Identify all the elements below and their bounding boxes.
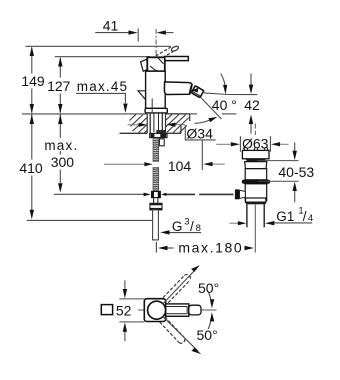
plan centerline left dash — [138, 309, 145, 311]
lever raised (dashed) — [152, 47, 174, 63]
svg-text:max.180: max.180 — [178, 239, 243, 255]
aerator (plan) — [189, 305, 201, 315]
dimension max.300 — [59, 115, 61, 184]
deck right hatching — [166, 114, 189, 132]
threaded tail G3/8 — [153, 210, 159, 240]
trap centerline bottom — [254, 205, 256, 253]
svg-text:104: 104 — [168, 158, 192, 174]
O34 label bracket — [185, 125, 215, 140]
body lower — [245, 184, 267, 201]
svg-text:50°: 50° — [198, 280, 219, 296]
lever raised tip ellipse — [171, 45, 179, 52]
wire: second reference line (lever level) — [55, 56, 150, 58]
hex nut — [150, 203, 162, 210]
svg-text:40 °: 40 ° — [212, 97, 237, 113]
locknut under deck — [150, 133, 167, 137]
50deg upper: diagonal + arc — [163, 268, 197, 304]
svg-text:Ø34: Ø34 — [186, 125, 213, 141]
head inner diagonal marks — [150, 66, 156, 71]
body square (plan) — [144, 299, 165, 322]
dimension 410 — [31, 115, 33, 211]
plan centerline right — [201, 309, 216, 311]
threaded shank upper part — [153, 139, 159, 162]
pop-up knob flag on body left — [138, 91, 146, 100]
pipe below nut — [153, 198, 155, 203]
dimension 104 — [104, 163, 144, 165]
dimension 149 — [31, 48, 33, 113]
dimension max.180 — [155, 242, 157, 253]
spout — [164, 82, 192, 95]
svg-text:8: 8 — [196, 223, 201, 234]
deck left hatching — [130, 114, 148, 132]
pop-up waste head: 3 knobs — [244, 148, 247, 151]
dimension square52 — [119, 298, 144, 300]
hose left arrow into nut — [144, 193, 151, 197]
svg-text:40-53: 40-53 — [278, 164, 314, 180]
svg-text:42: 42 — [244, 97, 260, 113]
svg-text:3: 3 — [184, 216, 189, 227]
deck right slab — [166, 113, 190, 115]
dimension 41 — [95, 29, 173, 42]
threaded shank lower part — [153, 168, 159, 191]
svg-text:127: 127 — [47, 78, 71, 94]
dimension 42 — [204, 93, 257, 95]
trap centerline top — [254, 124, 256, 136]
svg-text:max.: max. — [44, 138, 78, 153]
svg-text:4: 4 — [308, 213, 313, 224]
G1 1/4 arrows — [230, 222, 240, 224]
faucet body — [146, 71, 166, 108]
40 deg upper arc arrow — [221, 74, 225, 86]
svg-text:max.45: max.45 — [77, 79, 128, 94]
lever swing upper (dashed) — [163, 275, 190, 303]
deck left slab — [120, 132, 148, 134]
svg-text:G1: G1 — [276, 209, 294, 224]
escutcheon base — [145, 108, 167, 113]
svg-text:/: / — [190, 219, 194, 234]
spout arm (plan) — [166, 304, 189, 316]
wire: hose level line (max.300 end) — [54, 193, 145, 195]
O34 arrows — [128, 124, 140, 126]
svg-text:G: G — [172, 219, 183, 234]
dimension O63 — [216, 143, 230, 145]
svg-text:41: 41 — [103, 18, 119, 34]
waste head block — [242, 150, 269, 158]
o-ring — [242, 180, 270, 184]
svg-text:/: / — [303, 209, 307, 224]
104 right extension / O34 drop line — [201, 140, 203, 170]
G 3/8 label — [160, 230, 169, 234]
dark band under head — [246, 159, 266, 162]
pop-up rod stub — [159, 139, 164, 146]
svg-text:410: 410 — [19, 160, 43, 176]
40 deg diagonal axis line — [201, 98, 222, 119]
faucet tail: check valve nut — [151, 191, 161, 198]
lever handle back (left quad) — [141, 59, 149, 71]
hose line to trap (with break) — [166, 193, 195, 195]
wire: deck top long reference line — [22, 113, 147, 115]
lever bar (horizontal) — [165, 57, 189, 61]
tailpipe — [246, 204, 248, 227]
lever swing lower (dashed) — [160, 317, 185, 343]
svg-text:149: 149 — [21, 73, 45, 89]
dimension 40-53 — [257, 160, 298, 162]
neck — [245, 162, 267, 169]
wire: top reference line (lever raised level) — [26, 45, 171, 47]
50deg lower: diagonal + arc — [163, 316, 199, 351]
faucet head (cartridge housing) — [147, 57, 165, 71]
svg-text:50°: 50° — [197, 327, 218, 343]
aerator end cap (40 deg) — [191, 86, 204, 98]
wire: 410 end line — [27, 219, 152, 221]
svg-text:300: 300 — [51, 154, 75, 170]
svg-text:52: 52 — [116, 302, 132, 318]
coupling nut — [246, 198, 266, 202]
40 deg lower arc arrow — [195, 119, 213, 124]
flow arrow inside aerator — [192, 88, 199, 93]
cartridge circle (plan) — [148, 301, 166, 319]
node: faucet centerline (dash-dot) — [155, 29, 157, 57]
shank through deck — [149, 113, 151, 133]
body upper — [245, 169, 267, 180]
inlet nut (left) — [235, 189, 240, 199]
dimension 127 — [59, 58, 61, 113]
